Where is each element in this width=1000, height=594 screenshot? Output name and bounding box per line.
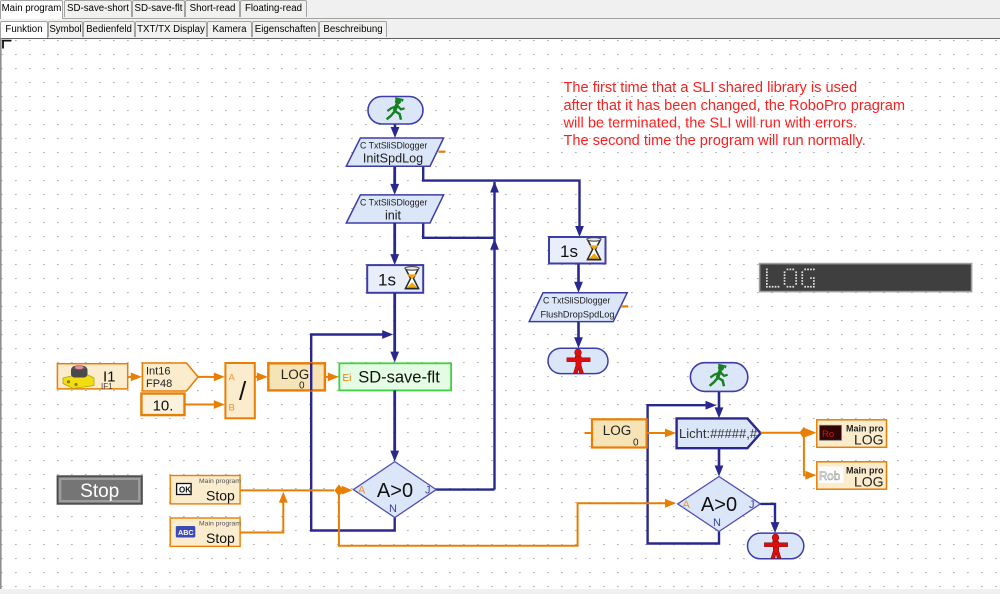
canvas top border [0, 37, 1000, 39]
wire SD-save-flt to A>0 [393, 390, 396, 455]
svg-text:N: N [389, 503, 397, 515]
wire 1s right to FlushDropSpdLog [577, 264, 580, 287]
branch diamond A>0 right [678, 477, 761, 532]
wire InitSpdLog to init [393, 166, 396, 188]
end capsule 1 [548, 348, 608, 373]
tab Bedienfeld [83, 21, 135, 37]
wire I1 to Int16 converter [128, 376, 135, 378]
svg-text:A: A [683, 499, 691, 511]
svg-text:0: 0 [299, 381, 305, 392]
wire N-loop of A>0 right [648, 405, 719, 543]
tab SD-save-short [64, 0, 132, 17]
svg-text:Rob: Rob [819, 471, 840, 483]
command box ABC Main program Stop [170, 518, 241, 546]
wire FlushDropSpdLog to end [577, 322, 580, 342]
wire OK-Stop to A input junction [240, 489, 334, 491]
svg-text:1s: 1s [560, 242, 578, 261]
parallelogram U2 C TxtSliSDlogger init [346, 195, 443, 223]
svg-text:Stop: Stop [206, 488, 235, 504]
wire InitSpdLog branch right to 1s (right) [423, 166, 579, 230]
svg-text:after that it has been changed: after that it has been changed, the Robo… [564, 98, 906, 114]
wire 10. to divider B [185, 404, 218, 406]
svg-text:1s: 1s [378, 271, 396, 290]
display input LOG box 2 [585, 419, 647, 448]
control button Stop [57, 476, 142, 504]
svg-text:Stop: Stop [80, 481, 119, 502]
svg-text:Stop: Stop [206, 530, 235, 546]
svg-text:init: init [385, 209, 402, 223]
svg-text:C TxtSliSDlogger: C TxtSliSDlogger [543, 296, 610, 306]
svg-text:/: / [239, 376, 247, 406]
tab TXT/TX Display [135, 21, 207, 37]
wire LOG2 to Licht [647, 432, 666, 434]
svg-text:A: A [229, 373, 236, 384]
svg-text:J: J [425, 485, 431, 497]
tab Symbol [48, 21, 83, 37]
tab Short-read [185, 0, 240, 17]
svg-text:A>0: A>0 [701, 494, 737, 516]
comment text red [563, 80, 906, 149]
svg-text:Int16: Int16 [146, 366, 170, 378]
svg-text:SD-save-flt: SD-save-flt [358, 369, 440, 387]
svg-text:A>0: A>0 [377, 480, 413, 502]
svg-text:A: A [358, 485, 366, 497]
wire J output right [436, 488, 494, 490]
panel output box Main pro LOG 2 (Rob text icon) [817, 462, 887, 490]
svg-text:The second time the program wi: The second time the program will run nor… [564, 133, 866, 149]
tab bar row 1 [0, 0, 1000, 19]
svg-text:FP48: FP48 [146, 378, 172, 390]
tab Funktion (active) [0, 21, 48, 38]
svg-text:IF1: IF1 [101, 382, 113, 391]
svg-text:Ro: Ro [822, 429, 834, 440]
wire divider to LOG1 [255, 376, 261, 378]
wire feedback from A>0 J up [493, 182, 495, 490]
svg-text:FlushDropSpdLog: FlushDropSpdLog [540, 310, 614, 320]
orange data stub FlushDropSpdLog [621, 305, 628, 307]
svg-text:C TxtSliSDlogger: C TxtSliSDlogger [360, 141, 427, 151]
svg-text:Ei: Ei [343, 373, 352, 384]
subprogram SD-save-flt [339, 363, 451, 390]
end capsule 3 [748, 533, 804, 559]
svg-text:will be terminated, the SLI wi: will be terminated, the SLI will run wit… [563, 116, 858, 132]
page corner mark [3, 41, 12, 49]
svg-text:B: B [229, 403, 235, 414]
svg-text:C TxtSliSDlogger: C TxtSliSDlogger [360, 198, 427, 208]
svg-text:J: J [749, 499, 755, 511]
wire LOG1 to Ei input [325, 376, 332, 378]
svg-text:LOG: LOG [854, 432, 884, 448]
wire start1 to InitSpdLog [394, 122, 397, 130]
svg-text:Main program: Main program [199, 520, 241, 527]
command box OK Main program Stop [170, 476, 241, 504]
operator divider / [225, 363, 254, 418]
converter Int16 FP48 [142, 363, 198, 391]
wire Int16 to divider A [198, 376, 217, 378]
svg-text:Main program: Main program [199, 478, 241, 485]
wire init branch right merging into feedback [423, 223, 494, 238]
parallelogram U1 C TxtSliSDlogger InitSpdLog [346, 138, 443, 166]
svg-text:LOG: LOG [603, 423, 632, 438]
wire N-loop overdraw crossing LOG1 [310, 363, 312, 390]
svg-text:InitSpdLog: InitSpdLog [363, 152, 423, 166]
wire junction down and right to A>0 right A input [339, 495, 665, 546]
tab Kamera [207, 21, 252, 37]
svg-text:N: N [713, 517, 721, 529]
tab Floating-read [240, 0, 307, 17]
wire Licht output to Main pro boxes [761, 433, 808, 476]
svg-text:The first time that a SLI shar: The first time that a SLI shared library… [564, 80, 858, 96]
constant 10. [141, 394, 184, 416]
start capsule 1 [368, 97, 423, 125]
display input LOG box 1 [268, 363, 325, 391]
svg-text:10.: 10. [153, 398, 174, 415]
LED display panel LOG [760, 264, 972, 292]
wire J2 to end capsule [760, 504, 775, 527]
junction A input [334, 484, 343, 496]
canvas left border [0, 38, 2, 589]
wire init to 1s delay [393, 223, 396, 258]
wire Licht to A>0 right [718, 448, 721, 470]
wire 1s to SD-save-flt [393, 293, 396, 356]
wire start2 to Licht display [718, 391, 721, 411]
tab Main program (active) [0, 0, 63, 19]
wire N-loop of A>0 left [311, 335, 395, 531]
start capsule 2 [690, 363, 747, 392]
wire ABC-Stop merging up [240, 497, 283, 533]
svg-text:OK: OK [179, 485, 191, 494]
input element I1 pushbutton [57, 364, 127, 391]
svg-text:ABC: ABC [178, 528, 194, 537]
tab SD-save-flt [132, 0, 185, 17]
tab bar row 2 [0, 21, 1000, 37]
svg-text:Licht:#####,#: Licht:#####,# [679, 426, 758, 441]
svg-text:0: 0 [633, 438, 639, 449]
tab Eigenschaften [252, 21, 319, 37]
delay 1s box left [367, 265, 423, 293]
parallelogram U3 C TxtSliSDlogger FlushDropSpdLog [529, 293, 627, 322]
tab Beschreibung [319, 21, 387, 37]
delay 1s box right [549, 237, 606, 264]
svg-text:LOG: LOG [281, 367, 310, 382]
orange data stub InitSpdLog [439, 151, 446, 153]
branch diamond A>0 left [353, 462, 436, 518]
svg-text:LOG: LOG [854, 474, 884, 490]
panel output box Main pro LOG 1 (red LED icon) [817, 420, 887, 448]
